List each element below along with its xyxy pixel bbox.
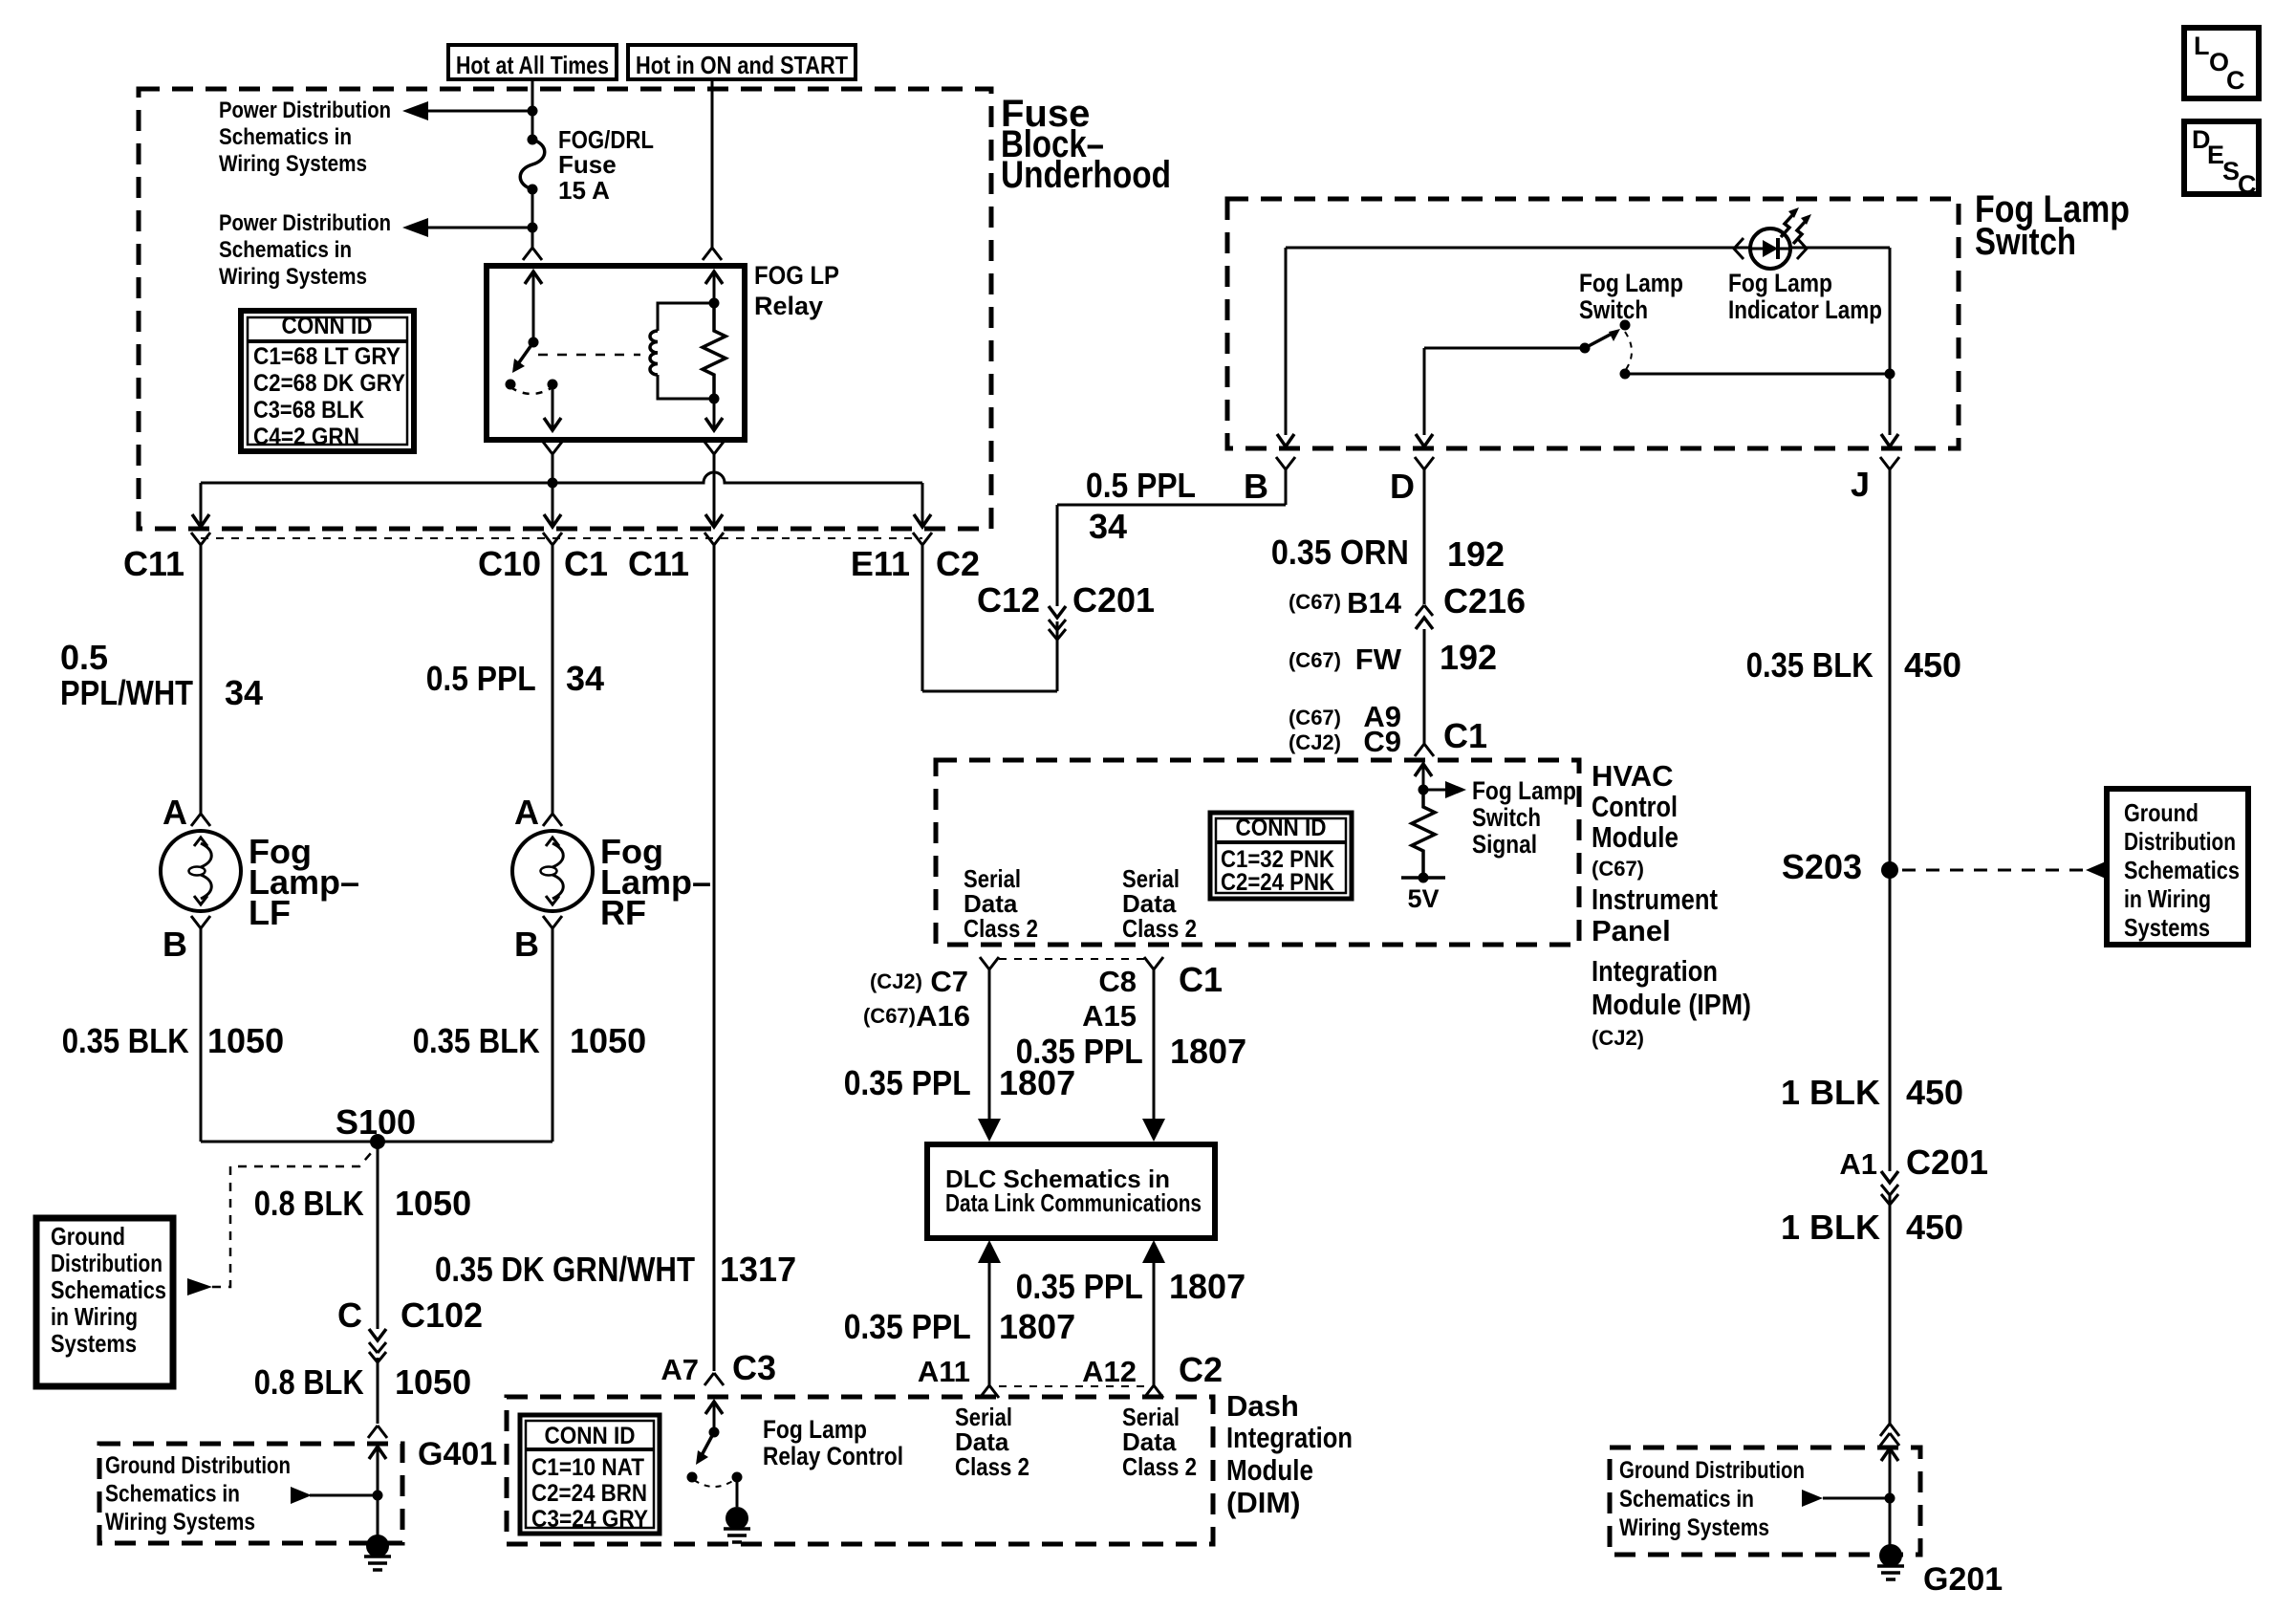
svg-text:C1: C1 — [1179, 960, 1223, 999]
svg-text:Class 2: Class 2 — [955, 1452, 1029, 1481]
svg-text:Ground: Ground — [2124, 798, 2199, 827]
svg-text:Schematics in: Schematics in — [219, 237, 352, 263]
svg-text:FOG LP: FOG LP — [754, 261, 839, 290]
svg-text:in Wiring: in Wiring — [2124, 884, 2211, 913]
svg-text:A16: A16 — [916, 999, 970, 1033]
svg-text:Ground Distribution: Ground Distribution — [105, 1452, 291, 1479]
svg-text:C: C — [337, 1295, 362, 1335]
svg-text:Switch: Switch — [1975, 221, 2076, 263]
svg-text:A1: A1 — [1839, 1147, 1877, 1181]
svg-text:CONN ID: CONN ID — [282, 313, 373, 339]
svg-text:Relay: Relay — [754, 292, 823, 320]
svg-text:C2: C2 — [1179, 1350, 1223, 1389]
svg-text:Switch: Switch — [1472, 803, 1541, 832]
svg-text:0.35 BLK: 0.35 BLK — [62, 1021, 189, 1060]
svg-text:Fog Lamp: Fog Lamp — [1579, 269, 1683, 297]
svg-text:C102: C102 — [401, 1295, 483, 1335]
svg-text:C9: C9 — [1363, 725, 1401, 758]
svg-text:0.8 BLK: 0.8 BLK — [254, 1184, 364, 1223]
svg-text:C1=68 LT GRY: C1=68 LT GRY — [253, 343, 401, 370]
svg-text:1050: 1050 — [395, 1362, 471, 1402]
svg-text:0.35 PPL: 0.35 PPL — [844, 1063, 971, 1102]
svg-text:Ground Distribution: Ground Distribution — [1619, 1457, 1805, 1484]
svg-text:1807: 1807 — [1169, 1267, 1245, 1306]
svg-text:C1: C1 — [564, 544, 608, 583]
svg-text:(C67): (C67) — [863, 1004, 916, 1028]
svg-text:0.35 BLK: 0.35 BLK — [413, 1021, 540, 1060]
svg-text:C2=24 BRN: C2=24 BRN — [531, 1480, 647, 1507]
svg-text:(C67): (C67) — [1592, 857, 1644, 881]
svg-text:5V: 5V — [1407, 884, 1439, 913]
svg-text:0.35 BLK: 0.35 BLK — [1746, 645, 1874, 685]
svg-text:L: L — [2194, 32, 2210, 60]
svg-text:Instrument: Instrument — [1592, 882, 1718, 916]
svg-text:Schematics in: Schematics in — [219, 124, 352, 150]
svg-text:1807: 1807 — [1170, 1032, 1246, 1071]
svg-text:Indicator Lamp: Indicator Lamp — [1728, 295, 1882, 324]
svg-text:A7: A7 — [661, 1353, 699, 1386]
svg-text:Schematics in: Schematics in — [1619, 1486, 1754, 1513]
svg-text:CONN ID: CONN ID — [1236, 815, 1327, 841]
svg-text:0.5: 0.5 — [60, 638, 108, 677]
svg-text:C: C — [2226, 66, 2245, 95]
svg-text:C12: C12 — [977, 580, 1040, 620]
svg-text:C3=24 GRY: C3=24 GRY — [531, 1506, 648, 1533]
svg-text:1050: 1050 — [570, 1021, 646, 1060]
svg-text:Distribution: Distribution — [51, 1249, 162, 1277]
svg-text:in Wiring: in Wiring — [51, 1302, 138, 1331]
svg-text:Systems: Systems — [51, 1329, 137, 1358]
svg-text:A: A — [514, 793, 539, 832]
svg-text:450: 450 — [1904, 645, 1961, 685]
svg-text:(CJ2): (CJ2) — [870, 969, 922, 993]
svg-text:G201: G201 — [1923, 1561, 2003, 1598]
svg-text:B14: B14 — [1347, 586, 1402, 620]
svg-text:C216: C216 — [1443, 581, 1526, 620]
svg-text:RF: RF — [600, 893, 646, 932]
svg-text:C201: C201 — [1906, 1143, 1988, 1182]
svg-text:Fog Lamp: Fog Lamp — [763, 1415, 867, 1444]
svg-text:C7: C7 — [930, 965, 968, 998]
svg-text:G401: G401 — [418, 1436, 497, 1472]
svg-text:Panel: Panel — [1592, 914, 1671, 947]
svg-text:C4=2 GRN: C4=2 GRN — [253, 424, 359, 450]
svg-text:C11: C11 — [628, 544, 689, 583]
svg-text:D: D — [1390, 467, 1415, 506]
svg-text:A12: A12 — [1082, 1355, 1137, 1388]
svg-text:Fog Lamp: Fog Lamp — [1728, 269, 1832, 297]
svg-text:34: 34 — [225, 673, 263, 712]
svg-text:Wiring Systems: Wiring Systems — [219, 264, 367, 290]
svg-text:0.35 PPL: 0.35 PPL — [1016, 1267, 1143, 1306]
svg-text:C2: C2 — [936, 544, 980, 583]
svg-text:(CJ2): (CJ2) — [1592, 1026, 1644, 1050]
svg-text:C11: C11 — [123, 544, 184, 583]
svg-text:B: B — [1244, 467, 1268, 506]
svg-text:(CJ2): (CJ2) — [1289, 730, 1341, 754]
svg-text:Control: Control — [1592, 790, 1678, 823]
svg-text:Module (IPM): Module (IPM) — [1592, 988, 1751, 1021]
svg-text:Class 2: Class 2 — [1122, 1452, 1197, 1481]
svg-text:Ground: Ground — [51, 1222, 125, 1251]
svg-text:C2=68 DK GRY: C2=68 DK GRY — [253, 370, 405, 397]
svg-text:1317: 1317 — [720, 1250, 796, 1289]
svg-text:C3: C3 — [732, 1348, 776, 1387]
svg-text:0.5 PPL: 0.5 PPL — [1086, 466, 1196, 505]
svg-text:1 BLK: 1 BLK — [1781, 1208, 1880, 1247]
svg-text:Underhood: Underhood — [1001, 154, 1171, 196]
svg-text:C201: C201 — [1072, 580, 1155, 620]
svg-text:Systems: Systems — [2124, 913, 2210, 942]
svg-text:Dash: Dash — [1226, 1389, 1299, 1423]
svg-text:Data Link Communications: Data Link Communications — [945, 1188, 1202, 1217]
svg-text:0.5 PPL: 0.5 PPL — [426, 659, 536, 698]
svg-text:(C67): (C67) — [1289, 590, 1341, 614]
svg-text:A: A — [162, 793, 187, 832]
svg-text:PPL/WHT: PPL/WHT — [60, 673, 193, 712]
svg-text:34: 34 — [1089, 507, 1127, 546]
svg-text:B: B — [162, 925, 187, 964]
svg-text:(DIM): (DIM) — [1226, 1486, 1300, 1519]
svg-text:1050: 1050 — [395, 1184, 471, 1223]
svg-text:(C67): (C67) — [1289, 648, 1341, 672]
svg-text:0.35 ORN: 0.35 ORN — [1271, 533, 1409, 572]
svg-text:Schematics: Schematics — [2124, 856, 2240, 884]
svg-text:B: B — [514, 925, 539, 964]
svg-text:Schematics in: Schematics in — [105, 1481, 240, 1508]
svg-text:15 A: 15 A — [558, 176, 610, 205]
svg-text:Distribution: Distribution — [2124, 827, 2236, 856]
svg-text:Fog Lamp: Fog Lamp — [1472, 776, 1576, 805]
svg-text:Hot in ON and START: Hot in ON and START — [636, 51, 848, 79]
svg-text:Wiring Systems: Wiring Systems — [1619, 1514, 1769, 1541]
svg-text:Schematics: Schematics — [51, 1275, 166, 1304]
svg-text:C1: C1 — [1443, 716, 1487, 755]
svg-text:LF: LF — [249, 893, 291, 932]
svg-text:Module: Module — [1226, 1453, 1313, 1487]
svg-text:1807: 1807 — [999, 1307, 1075, 1346]
svg-text:C: C — [2238, 170, 2257, 199]
svg-text:Power Distribution: Power Distribution — [219, 210, 391, 236]
svg-text:FW: FW — [1355, 642, 1402, 676]
svg-text:C10: C10 — [478, 544, 541, 583]
svg-text:HVAC: HVAC — [1592, 759, 1674, 793]
svg-text:Wiring Systems: Wiring Systems — [219, 151, 367, 177]
svg-text:0.8 BLK: 0.8 BLK — [254, 1362, 364, 1402]
svg-text:E11: E11 — [851, 544, 910, 583]
svg-text:Class 2: Class 2 — [964, 914, 1038, 943]
svg-text:192: 192 — [1440, 638, 1497, 677]
svg-text:1050: 1050 — [207, 1021, 284, 1060]
svg-text:C1=10 NAT: C1=10 NAT — [531, 1454, 644, 1481]
svg-text:A15: A15 — [1082, 999, 1137, 1033]
svg-text:Power Distribution: Power Distribution — [219, 98, 391, 123]
svg-text:Fuse: Fuse — [558, 150, 617, 179]
svg-text:1807: 1807 — [999, 1063, 1075, 1102]
svg-text:450: 450 — [1906, 1073, 1963, 1112]
svg-text:Module: Module — [1592, 820, 1679, 854]
svg-text:Class 2: Class 2 — [1122, 914, 1197, 943]
svg-text:450: 450 — [1906, 1208, 1963, 1247]
svg-text:C8: C8 — [1098, 965, 1137, 998]
svg-text:C3=68 BLK: C3=68 BLK — [253, 397, 364, 424]
svg-text:C2=24 PNK: C2=24 PNK — [1221, 869, 1334, 896]
svg-text:A11: A11 — [918, 1355, 970, 1388]
svg-text:CONN ID: CONN ID — [545, 1423, 636, 1449]
svg-text:(C67): (C67) — [1289, 706, 1341, 729]
svg-text:J: J — [1851, 465, 1870, 504]
svg-text:Hot at All Times: Hot at All Times — [456, 51, 609, 79]
svg-text:Signal: Signal — [1472, 830, 1537, 859]
svg-text:Integration: Integration — [1226, 1421, 1353, 1454]
svg-text:0.35 PPL: 0.35 PPL — [844, 1307, 971, 1346]
svg-text:S100: S100 — [336, 1102, 416, 1142]
svg-text:Relay Control: Relay Control — [763, 1442, 903, 1470]
svg-text:1 BLK: 1 BLK — [1781, 1073, 1880, 1112]
svg-text:Switch: Switch — [1579, 295, 1648, 324]
svg-text:Wiring Systems: Wiring Systems — [105, 1509, 255, 1535]
svg-text:S203: S203 — [1782, 847, 1862, 886]
svg-text:34: 34 — [566, 659, 604, 698]
svg-text:Integration: Integration — [1592, 954, 1718, 988]
svg-text:192: 192 — [1447, 534, 1505, 574]
svg-text:0.35 DK GRN/WHT: 0.35 DK GRN/WHT — [435, 1250, 695, 1289]
